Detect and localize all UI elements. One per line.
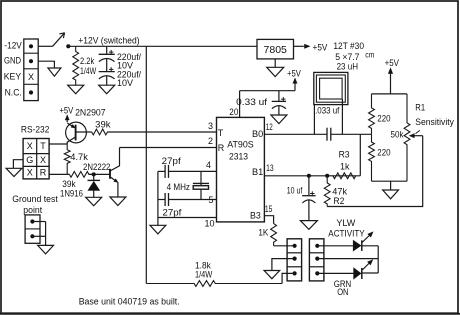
label R1 bbox=[415, 103, 425, 113]
wire pin5 left bbox=[158, 199, 165, 201]
wire +5V arrow (2907) bbox=[65, 115, 69, 123]
wire pin4 (XTAL2) bbox=[169, 170, 217, 172]
label pin 4 bbox=[206, 160, 211, 170]
wire pin5 (XTAL1) bbox=[169, 199, 217, 201]
label 10 uf bbox=[287, 185, 303, 195]
label +12V (switched) bbox=[78, 35, 139, 45]
svg-text:2: 2 bbox=[208, 136, 213, 146]
ground (test point) bbox=[38, 245, 54, 254]
wire wiper run bbox=[327, 136, 423, 207]
svg-text:2313: 2313 bbox=[229, 151, 248, 161]
wire R cell bbox=[49, 173, 69, 175]
label 1k bbox=[340, 162, 350, 172]
connector P1 3-pin bbox=[287, 239, 302, 281]
wire G to ground bbox=[13, 160, 23, 169]
wire P2 pin2 common bbox=[317, 258, 378, 260]
label point bbox=[23, 205, 42, 215]
label 27pf upper bbox=[162, 156, 182, 166]
svg-text:T: T bbox=[218, 128, 224, 138]
svg-text:KEY: KEY bbox=[4, 71, 21, 81]
wire pin4 left bbox=[158, 170, 165, 172]
label +5V (divider) bbox=[385, 58, 399, 68]
label pin 10 bbox=[204, 219, 214, 229]
svg-text:1k: 1k bbox=[340, 162, 350, 172]
wire GND pin bbox=[38, 61, 54, 68]
label B0 bbox=[252, 129, 263, 139]
label 50k bbox=[391, 130, 404, 140]
wire 10uf to ground bbox=[308, 200, 310, 221]
wire LED2 to common bbox=[362, 272, 378, 274]
svg-text:39k: 39k bbox=[95, 119, 111, 129]
resistor 1.8k 1/4W bbox=[146, 281, 282, 287]
label pin 12 bbox=[266, 122, 273, 132]
label pin 5 bbox=[208, 195, 213, 205]
svg-text:R: R bbox=[40, 168, 47, 178]
capacitor 10uf bbox=[302, 191, 315, 203]
label pin 3 bbox=[208, 121, 213, 131]
svg-text:1/4W: 1/4W bbox=[195, 270, 213, 280]
label 1.8k bbox=[195, 260, 211, 270]
svg-text:GND: GND bbox=[4, 56, 22, 66]
svg-text:13: 13 bbox=[266, 163, 274, 173]
svg-text:G: G bbox=[26, 155, 33, 165]
label pin 20 bbox=[229, 107, 238, 117]
svg-text:15: 15 bbox=[265, 204, 273, 214]
title text bbox=[79, 296, 180, 306]
label GRN bbox=[334, 279, 352, 289]
wire P1 pin3 to 1.8k bbox=[282, 273, 295, 283]
wire +5V rail to arrow bbox=[240, 90, 295, 92]
svg-text:R1: R1 bbox=[415, 103, 425, 113]
wire pin20 stem bbox=[239, 91, 241, 118]
svg-text:Ground test: Ground test bbox=[12, 194, 58, 204]
svg-text:B1: B1 bbox=[252, 167, 263, 177]
label 1N916 bbox=[60, 188, 83, 198]
label 2.2k bbox=[80, 56, 95, 66]
IC U1 AT90S2313 body bbox=[217, 117, 265, 221]
wire divider top bbox=[372, 93, 408, 95]
regulator U2 7805 bbox=[257, 39, 294, 59]
svg-text:R2: R2 bbox=[333, 196, 344, 206]
wire divider ground stem bbox=[390, 181, 392, 190]
ground (10uf) bbox=[300, 221, 317, 230]
wire B3 to 1K bbox=[264, 216, 273, 224]
svg-text:220: 220 bbox=[377, 113, 390, 123]
svg-text:B3: B3 bbox=[250, 211, 261, 221]
switch S1 blade bbox=[53, 33, 65, 47]
ground (below 2.2k) bbox=[68, 85, 84, 94]
label 39k (Q1) bbox=[95, 119, 111, 129]
label 2313 bbox=[229, 151, 248, 161]
ground (1N916) bbox=[86, 197, 102, 206]
wire between caps bbox=[106, 59, 108, 72]
label 220 upper bbox=[377, 113, 390, 123]
svg-text:Sensitivity: Sensitivity bbox=[415, 117, 454, 127]
label B3 bbox=[250, 211, 261, 221]
capacitor C1 220uf/10V bbox=[99, 50, 115, 62]
node 10uf junction bbox=[307, 174, 311, 178]
label 1/4W bbox=[80, 66, 97, 76]
resistor 220 upper bbox=[369, 94, 375, 134]
svg-text:27pf: 27pf bbox=[162, 207, 182, 217]
wire 39k to base bbox=[89, 173, 110, 175]
label 39k (Q2) bbox=[62, 179, 76, 189]
wire coil right leg bbox=[341, 99, 343, 134]
resistor 220 lower bbox=[369, 134, 375, 181]
wire 7805 output bbox=[294, 44, 311, 48]
svg-text:+5V: +5V bbox=[59, 106, 73, 116]
wire cap stem bbox=[106, 46, 108, 54]
svg-text:point: point bbox=[23, 205, 42, 215]
label 1/4W (1.8k) bbox=[195, 270, 213, 280]
label 2N2907 bbox=[75, 108, 106, 118]
label 220uf/ C2 bbox=[117, 69, 141, 79]
ground (P1 pin2) bbox=[264, 271, 280, 279]
resistor 4.7k bbox=[64, 144, 70, 174]
svg-text:Base unit 040719 as built.: Base unit 040719 as built. bbox=[79, 296, 180, 306]
resistor R3 1k bbox=[333, 173, 360, 179]
LED D3 GRN bbox=[354, 268, 362, 279]
ground (Q2 emitter) bbox=[110, 197, 126, 206]
label 5 x 7.7 cm bbox=[335, 51, 374, 62]
wire B0 to cap bbox=[264, 133, 326, 135]
svg-text:10 uf: 10 uf bbox=[287, 185, 303, 195]
wire R3 vertical bbox=[359, 134, 361, 176]
wire T cell to 4.7k bbox=[49, 143, 67, 145]
svg-text:10: 10 bbox=[204, 219, 214, 229]
svg-text:0.33 uf: 0.33 uf bbox=[236, 97, 267, 107]
svg-text:R: R bbox=[218, 143, 225, 153]
wire test point pins bbox=[32, 222, 45, 246]
wire crystal right vertical bbox=[200, 171, 202, 199]
label YLW bbox=[336, 218, 355, 228]
label AT90S bbox=[227, 140, 254, 150]
label 220uf/ C1 bbox=[117, 52, 141, 62]
wire +5V arrow (divider) bbox=[388, 68, 393, 94]
svg-text:YLW: YLW bbox=[336, 218, 355, 228]
label 4 MHz bbox=[167, 182, 191, 192]
svg-text:12: 12 bbox=[266, 122, 273, 132]
wire P2 pin1 to LED1 bbox=[317, 245, 354, 247]
label 23 uH bbox=[337, 62, 358, 72]
label B1 bbox=[252, 167, 263, 177]
svg-text:23 uH: 23 uH bbox=[337, 62, 358, 72]
svg-text:4 MHz: 4 MHz bbox=[167, 182, 191, 192]
capacitor 27pf lower plates bbox=[165, 193, 168, 206]
svg-text:2N2907: 2N2907 bbox=[75, 108, 106, 118]
wire 0.33uf stem bbox=[278, 91, 280, 102]
svg-text:+5V: +5V bbox=[313, 43, 328, 53]
RS-232 connector table bbox=[23, 139, 49, 179]
label ACTIVITY bbox=[328, 228, 364, 238]
wire 0.33uf to ground bbox=[278, 106, 280, 116]
svg-text:39k: 39k bbox=[62, 179, 76, 189]
wire Q2 collector to pin R bbox=[120, 147, 217, 149]
label +5V (mcu) bbox=[287, 69, 301, 79]
wire +5V arrow (mcu) bbox=[293, 78, 297, 91]
svg-text:20: 20 bbox=[229, 107, 238, 117]
capacitor 0.33uf bbox=[272, 97, 286, 109]
capacitor 27pf upper plates bbox=[165, 165, 168, 178]
svg-text:AT90S: AT90S bbox=[227, 140, 254, 150]
svg-text:2.2k: 2.2k bbox=[80, 56, 95, 66]
label R2 bbox=[333, 196, 344, 206]
label N.C. bbox=[5, 88, 22, 98]
svg-text:1/4W: 1/4W bbox=[80, 66, 97, 76]
ground (divider) bbox=[383, 190, 399, 199]
label ON bbox=[337, 287, 348, 297]
ground (input GND) bbox=[48, 68, 61, 76]
label GND bbox=[4, 56, 22, 66]
Q1 emitter bbox=[67, 123, 75, 128]
wire divider bottom bbox=[372, 180, 408, 182]
svg-text:+5V: +5V bbox=[287, 69, 301, 79]
wire pin10 bbox=[158, 217, 217, 219]
svg-text:cm: cm bbox=[365, 51, 374, 60]
wire 39k to pin T bbox=[107, 131, 216, 133]
label pin 13 bbox=[266, 163, 274, 173]
inductor L1 loop antenna bbox=[314, 72, 348, 104]
resistor R2 47k bbox=[324, 176, 330, 207]
Q2 emitter bbox=[110, 177, 118, 197]
ground (0.33uf) bbox=[271, 115, 287, 124]
ground (RS-232 G) bbox=[6, 168, 22, 176]
connector J1 (power input) bbox=[24, 39, 38, 101]
label 47k bbox=[332, 187, 347, 197]
LED D2 YLW bbox=[353, 240, 362, 251]
svg-text:12T #30: 12T #30 bbox=[333, 41, 364, 51]
wire B1 net bbox=[264, 175, 333, 177]
connector ground test point bbox=[25, 215, 40, 243]
svg-text:27pf: 27pf bbox=[162, 156, 182, 166]
ground (7805) bbox=[267, 67, 284, 76]
wire cap to ground bbox=[106, 76, 108, 85]
svg-text:4: 4 bbox=[206, 160, 211, 170]
capacitor .033uf plates bbox=[327, 128, 331, 141]
label KEY bbox=[4, 71, 21, 81]
svg-text:X: X bbox=[28, 72, 34, 82]
Q1 collector bbox=[67, 137, 75, 144]
wire +12V rail bbox=[68, 45, 257, 47]
node +12V junction dot bbox=[66, 44, 70, 48]
svg-text:+12V (switched): +12V (switched) bbox=[78, 35, 139, 45]
label Ground test bbox=[12, 194, 58, 204]
label 1K bbox=[258, 227, 268, 237]
label R bbox=[218, 143, 225, 153]
connector P2 3-pin bbox=[309, 239, 324, 281]
label +5V (2907) bbox=[59, 106, 73, 116]
svg-text:3: 3 bbox=[208, 121, 213, 131]
node 47k junction bbox=[325, 174, 329, 178]
svg-text:RS-232: RS-232 bbox=[21, 125, 50, 135]
svg-text:X: X bbox=[27, 141, 33, 151]
wire cap to divider bbox=[331, 133, 372, 135]
svg-text:7805: 7805 bbox=[264, 44, 288, 56]
wire LED1 to common bbox=[362, 245, 378, 247]
label R3 bbox=[339, 149, 350, 159]
svg-text:+5V: +5V bbox=[385, 58, 399, 68]
svg-text:.033 uf: .033 uf bbox=[315, 106, 340, 116]
svg-text:5: 5 bbox=[208, 195, 213, 205]
svg-text:4.7k: 4.7k bbox=[70, 152, 88, 162]
label 12T #30 bbox=[333, 41, 364, 51]
svg-text:N.C.: N.C. bbox=[5, 88, 22, 98]
label RS-232 bbox=[21, 125, 50, 135]
label pin 15 bbox=[265, 204, 273, 214]
ground (crystal) bbox=[150, 225, 166, 234]
wire coil left leg bbox=[313, 105, 315, 135]
wire LED common vertical bbox=[377, 246, 379, 273]
label T bbox=[218, 128, 224, 138]
svg-text:R3: R3 bbox=[339, 149, 350, 159]
resistor 2.2k 1/4W bbox=[73, 46, 79, 85]
LED D3 arrow bbox=[362, 260, 373, 270]
svg-text:2N2222: 2N2222 bbox=[83, 162, 110, 172]
wire crystal left vertical bbox=[157, 171, 159, 225]
label +5V (7805 out) bbox=[313, 43, 328, 53]
LED D2 arrow bbox=[362, 232, 373, 243]
label Sensitivity bbox=[415, 117, 454, 127]
label 0.33 uf bbox=[236, 97, 267, 107]
transistor Q1 2N2907 body bbox=[66, 122, 87, 143]
label 10V C1 bbox=[117, 61, 133, 71]
potentiometer R1 50k element bbox=[404, 94, 410, 181]
ground (below caps) bbox=[99, 85, 115, 94]
label 2N2222 bbox=[83, 162, 110, 172]
label .033 uf bbox=[315, 106, 340, 116]
label -12V bbox=[4, 41, 21, 51]
wire 7805 ground stem bbox=[274, 59, 276, 67]
label 220 lower bbox=[377, 147, 390, 157]
wire -12V pin to switch bbox=[38, 45, 52, 47]
resistor 39k (Q1 base) bbox=[92, 129, 217, 135]
wire P2 pin3 to LED2 bbox=[317, 272, 354, 274]
svg-text:50k: 50k bbox=[391, 130, 404, 140]
svg-text:1K: 1K bbox=[258, 227, 268, 237]
crystal Y1 4MHz bbox=[193, 183, 209, 189]
svg-text:1N916: 1N916 bbox=[60, 188, 83, 198]
svg-text:X: X bbox=[40, 155, 46, 165]
svg-text:5 ×7.7: 5 ×7.7 bbox=[335, 52, 359, 62]
svg-text:T: T bbox=[40, 141, 46, 151]
label 27pf lower bbox=[162, 207, 182, 217]
resistor 1K bbox=[271, 224, 277, 246]
transistor Q2 2N2222 bar bbox=[109, 169, 111, 179]
svg-text:ON: ON bbox=[337, 287, 348, 297]
node diode junction bbox=[92, 172, 96, 176]
svg-text:B0: B0 bbox=[252, 129, 263, 139]
wiper arrow R1 bbox=[409, 130, 423, 138]
svg-text:47k: 47k bbox=[332, 187, 347, 197]
capacitor C2 220uf/10V bbox=[99, 67, 115, 79]
Q2 collector bbox=[110, 148, 120, 172]
wire P1 pin2 to ground bbox=[272, 259, 295, 271]
wire 10uf stem bbox=[308, 176, 310, 196]
svg-text:X: X bbox=[27, 168, 33, 178]
wire 1K to header bbox=[274, 245, 295, 247]
svg-text:-12V: -12V bbox=[4, 41, 21, 51]
Q1 base wire bbox=[76, 131, 92, 133]
svg-text:220: 220 bbox=[377, 147, 390, 157]
label 10V C2 bbox=[117, 78, 133, 88]
label 4.7k bbox=[70, 152, 88, 162]
resistor 39k (Q2 base) bbox=[69, 172, 93, 178]
label pin 2 bbox=[208, 136, 213, 146]
svg-text:10V: 10V bbox=[117, 78, 133, 88]
wire +12V drop bbox=[145, 46, 147, 283]
diode D1 1N916 bbox=[88, 174, 101, 197]
svg-text:ACTIVITY: ACTIVITY bbox=[328, 228, 364, 238]
